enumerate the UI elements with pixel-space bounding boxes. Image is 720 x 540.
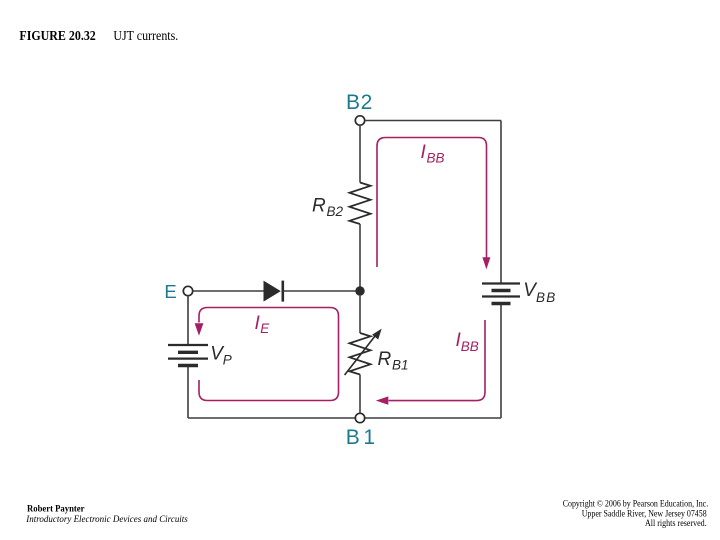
wire bottom horizontal [188, 417, 501, 419]
wire right rail lower [500, 305, 502, 418]
wire VP down to bottom rail [187, 367, 189, 418]
svg-text:B2: B2 [346, 91, 372, 114]
wire RB1 down to B1 terminal [359, 375, 361, 414]
svg-text:BB: BB [427, 151, 445, 166]
svg-text:Introductory Electronic Device: Introductory Electronic Devices and Circ… [25, 515, 188, 525]
battery VBB [482, 284, 520, 304]
wire diode to center node [284, 290, 360, 292]
diode D1 anode triangle [264, 281, 281, 302]
resistor RB1 (variable) [350, 333, 371, 375]
value label VP [210, 344, 232, 368]
wire RB2 to node [359, 224, 361, 291]
figure title [19, 28, 178, 43]
variable-resistor arrow across RB1 [345, 329, 382, 375]
svg-text:Copyright © 2006 by Pearson Ed: Copyright © 2006 by Pearson Education, I… [563, 499, 709, 510]
terminal E (open circle) [183, 286, 192, 295]
diode D1 cathode bar [281, 281, 284, 302]
svg-text:E: E [164, 281, 176, 302]
svg-text:BB: BB [536, 290, 555, 305]
svg-text:R: R [312, 196, 326, 217]
svg-text:UJT currents.: UJT currents. [113, 28, 178, 43]
wire top horizontal (B2 to right rail) [365, 120, 501, 122]
junction node (solid dot) [355, 286, 364, 295]
svg-text:All rights reserved.: All rights reserved. [645, 519, 707, 529]
wire E to diode [193, 290, 264, 292]
svg-text:Robert Paynter: Robert Paynter [27, 505, 85, 515]
wire E rail down to VP [187, 296, 189, 344]
value label VBB [523, 280, 555, 305]
value label RB2 [312, 196, 344, 219]
svg-text:R: R [378, 349, 392, 370]
svg-text:FIGURE 20.32: FIGURE 20.32 [19, 28, 96, 43]
current arrow IBB (lower return) [376, 320, 485, 405]
resistor RB2 [350, 183, 371, 225]
battery VP [168, 345, 208, 366]
value label RB1 [378, 349, 409, 372]
current label IBB (upper) [421, 142, 445, 166]
svg-text:BB: BB [461, 339, 479, 354]
svg-text:Upper Saddle River, New Jersey: Upper Saddle River, New Jersey 07458 [582, 510, 707, 520]
terminal B1 (open circle) [355, 413, 364, 422]
current loop IE (emitter branch) [195, 308, 339, 401]
svg-text:B1: B1 [346, 426, 375, 449]
current label IE [255, 313, 271, 336]
current loop IBB (upper, B2 branch) [377, 138, 490, 270]
svg-text:B2: B2 [327, 204, 344, 219]
svg-text:P: P [223, 353, 232, 368]
terminal B2 (open circle) [355, 116, 364, 125]
wire node down to RB1 [359, 296, 361, 333]
svg-text:E: E [260, 321, 270, 336]
current label IBB (lower) [456, 330, 479, 354]
wire right rail upper [500, 121, 502, 284]
svg-text:B1: B1 [392, 357, 409, 372]
wire B2 stub down to RB2 [359, 125, 361, 182]
